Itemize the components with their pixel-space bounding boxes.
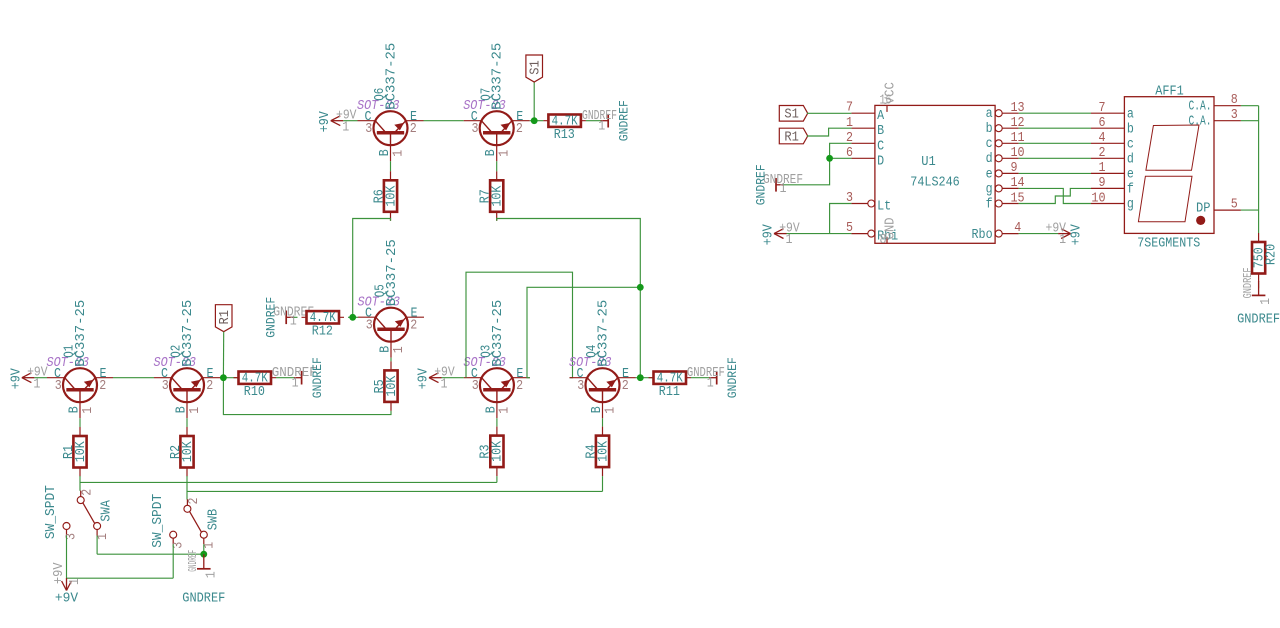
- svg-text:b: b: [986, 122, 993, 137]
- svg-text:1: 1: [81, 407, 96, 414]
- svg-text:d: d: [986, 152, 993, 167]
- svg-text:+9V: +9V: [55, 591, 78, 606]
- svg-text:C.A.: C.A.: [1189, 99, 1212, 114]
- svg-text:3: 3: [472, 379, 479, 394]
- svg-text:GNDREF: GNDREF: [1242, 267, 1255, 298]
- svg-text:3: 3: [472, 122, 479, 137]
- svg-text:D: D: [877, 154, 884, 169]
- svg-text:3: 3: [55, 379, 62, 394]
- svg-text:2: 2: [410, 122, 417, 137]
- svg-text:R2: R2: [169, 445, 184, 459]
- svg-text:d: d: [1127, 153, 1134, 168]
- svg-text:BC337-25: BC337-25: [597, 300, 612, 367]
- svg-text:1: 1: [292, 376, 299, 391]
- svg-text:16: 16: [880, 94, 892, 109]
- svg-text:SWA: SWA: [100, 499, 115, 521]
- svg-text:+9V: +9V: [318, 111, 333, 132]
- svg-text:R3: R3: [479, 445, 494, 459]
- svg-text:2: 2: [516, 379, 523, 394]
- svg-text:c: c: [1127, 138, 1134, 153]
- svg-text:GNDREF: GNDREF: [187, 550, 200, 572]
- svg-text:4: 4: [1099, 131, 1106, 146]
- svg-text:1: 1: [203, 542, 218, 549]
- svg-text:9: 9: [1011, 161, 1018, 176]
- svg-text:DP: DP: [1196, 202, 1211, 217]
- svg-text:3: 3: [577, 379, 584, 394]
- svg-text:1: 1: [441, 377, 448, 392]
- svg-text:R1: R1: [218, 310, 233, 325]
- svg-text:10: 10: [1091, 191, 1105, 206]
- svg-text:74LS246: 74LS246: [910, 175, 960, 190]
- svg-text:+9V: +9V: [52, 563, 67, 585]
- svg-text:R6: R6: [372, 189, 387, 203]
- svg-text:9: 9: [1099, 176, 1106, 191]
- svg-text:R1: R1: [784, 130, 799, 145]
- svg-text:2: 2: [187, 498, 202, 505]
- svg-text:3: 3: [1231, 108, 1238, 123]
- svg-text:S1: S1: [529, 60, 544, 75]
- svg-text:R13: R13: [554, 128, 575, 143]
- svg-text:R1: R1: [62, 445, 77, 459]
- svg-text:GNDREF: GNDREF: [618, 100, 632, 141]
- svg-text:e: e: [1127, 168, 1134, 183]
- svg-text:A: A: [877, 109, 885, 124]
- svg-text:e: e: [986, 167, 993, 182]
- svg-text:BC337-25: BC337-25: [181, 300, 196, 367]
- svg-text:GNDREF: GNDREF: [311, 357, 325, 398]
- svg-text:6: 6: [1099, 116, 1106, 131]
- svg-text:SW_SPDT: SW_SPDT: [151, 494, 166, 548]
- svg-text:SW_SPDT: SW_SPDT: [44, 485, 59, 539]
- svg-text:f: f: [986, 197, 993, 212]
- svg-text:1: 1: [498, 407, 513, 414]
- svg-text:BC337-25: BC337-25: [74, 300, 89, 367]
- svg-text:BC337-25: BC337-25: [491, 300, 506, 367]
- svg-text:g: g: [1127, 198, 1134, 213]
- svg-text:2: 2: [99, 379, 106, 394]
- svg-text:+9V: +9V: [1070, 224, 1085, 245]
- svg-text:1: 1: [392, 346, 407, 353]
- svg-text:SWB: SWB: [206, 509, 221, 531]
- svg-text:g: g: [986, 182, 993, 197]
- svg-text:B: B: [877, 124, 884, 139]
- svg-text:1: 1: [1059, 233, 1066, 248]
- svg-text:BC337-25: BC337-25: [491, 43, 506, 110]
- svg-text:1: 1: [603, 407, 618, 414]
- svg-text:2: 2: [1099, 146, 1106, 161]
- svg-text:BC337-25: BC337-25: [385, 239, 400, 306]
- svg-text:c: c: [986, 137, 993, 152]
- svg-text:a: a: [1127, 107, 1134, 122]
- svg-text:b: b: [1127, 122, 1134, 137]
- svg-text:R10: R10: [244, 385, 265, 400]
- svg-text:GNDREF: GNDREF: [182, 591, 225, 606]
- svg-text:C: C: [877, 139, 884, 154]
- svg-text:R11: R11: [659, 385, 680, 400]
- svg-text:2: 2: [80, 489, 95, 496]
- svg-text:3: 3: [162, 379, 169, 394]
- svg-text:S1: S1: [784, 108, 799, 123]
- svg-text:R5: R5: [373, 379, 388, 393]
- svg-text:R4: R4: [584, 445, 599, 459]
- svg-text:a: a: [986, 107, 993, 122]
- svg-text:1: 1: [498, 150, 513, 157]
- svg-text:3: 3: [366, 318, 373, 333]
- svg-text:1: 1: [68, 578, 83, 585]
- svg-text:1: 1: [188, 407, 203, 414]
- svg-text:1: 1: [1259, 298, 1274, 305]
- svg-text:1: 1: [598, 119, 605, 134]
- svg-text:10: 10: [1011, 146, 1025, 161]
- svg-text:1: 1: [96, 533, 111, 540]
- svg-text:U1: U1: [921, 155, 936, 170]
- svg-text:7: 7: [1099, 101, 1106, 116]
- svg-text:GNDREF: GNDREF: [726, 357, 740, 398]
- svg-text:R12: R12: [312, 325, 333, 340]
- svg-text:2: 2: [622, 379, 629, 394]
- svg-text:3: 3: [365, 122, 372, 137]
- svg-text:1: 1: [707, 376, 714, 391]
- svg-text:R20: R20: [1265, 244, 1280, 265]
- svg-text:+9V: +9V: [416, 368, 431, 389]
- svg-text:1: 1: [204, 571, 219, 578]
- svg-text:+9V: +9V: [9, 368, 24, 389]
- svg-text:1: 1: [342, 120, 349, 135]
- svg-text:7SEGMENTS: 7SEGMENTS: [1137, 236, 1200, 251]
- svg-text:8: 8: [1231, 93, 1238, 108]
- svg-text:R7: R7: [479, 189, 494, 203]
- svg-text:2: 2: [410, 318, 417, 333]
- svg-text:1: 1: [391, 150, 406, 157]
- svg-text:AFF1: AFF1: [1155, 85, 1184, 100]
- svg-text:GNDREF: GNDREF: [1237, 312, 1280, 327]
- svg-text:Rbo: Rbo: [972, 228, 993, 243]
- svg-text:2: 2: [516, 122, 523, 137]
- svg-text:2: 2: [206, 379, 213, 394]
- svg-text:1: 1: [33, 377, 40, 392]
- svg-text:5: 5: [1231, 198, 1238, 213]
- svg-text:GNDREF: GNDREF: [755, 164, 769, 205]
- svg-text:C.A.: C.A.: [1189, 114, 1212, 129]
- svg-text:BC337-25: BC337-25: [385, 43, 400, 110]
- svg-text:f: f: [1127, 183, 1134, 198]
- svg-text:1: 1: [1099, 161, 1106, 176]
- svg-text:GNDREF: GNDREF: [265, 297, 279, 338]
- svg-text:1: 1: [786, 233, 793, 248]
- svg-text:+9V: +9V: [761, 224, 776, 245]
- svg-text:8: 8: [880, 233, 887, 248]
- svg-text:Lt: Lt: [877, 200, 891, 215]
